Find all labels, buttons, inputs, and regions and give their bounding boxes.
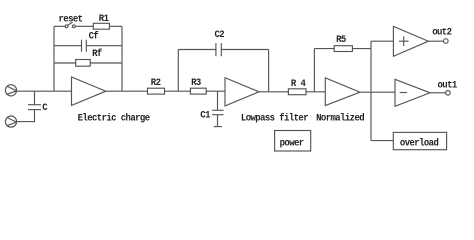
terminal out2 xyxy=(444,39,449,44)
R5 pickoff rail xyxy=(313,49,315,92)
svg-text:Electric charge: Electric charge xyxy=(78,112,151,124)
overload box xyxy=(393,132,446,149)
svg-text:R2: R2 xyxy=(151,77,161,89)
wire: left rail to Cf xyxy=(54,45,81,47)
op-amp U1 xyxy=(72,77,106,105)
op-amp U3 xyxy=(325,78,360,106)
svg-text:C1: C1 xyxy=(200,109,210,121)
resistor R1 xyxy=(93,23,109,29)
power box xyxy=(275,131,311,152)
svg-text:out1: out1 xyxy=(438,79,458,91)
wire: rail to overload box xyxy=(371,140,393,142)
resistor Rf xyxy=(76,60,91,67)
svg-text:R3: R3 xyxy=(191,77,201,89)
wire: R3 to op-amp U2 xyxy=(206,90,225,92)
wire: X2 to capacitor C xyxy=(17,110,35,122)
svg-text:reset: reset xyxy=(59,13,83,25)
svg-text:C: C xyxy=(42,101,48,113)
wire: A3 output xyxy=(428,40,443,42)
svg-text:overload: overload xyxy=(400,137,439,149)
wire: U3 output to A4 input xyxy=(360,91,395,93)
svg-text:C2: C2 xyxy=(215,29,225,41)
wire: switch to R1 xyxy=(75,25,93,27)
wire: U1 output to R2 xyxy=(106,90,148,92)
svg-text:power: power xyxy=(280,137,305,149)
svg-text:out2: out2 xyxy=(432,26,452,38)
capacitor C2 right rail xyxy=(268,50,270,92)
wire: X1 to op-amp U1 input xyxy=(17,90,72,92)
resistor R5 xyxy=(334,46,352,52)
wire: R2 to R3 xyxy=(165,90,191,92)
resistor R3 xyxy=(190,88,206,94)
svg-text:R 4: R 4 xyxy=(291,77,306,89)
svg-text:R1: R1 xyxy=(99,12,109,24)
wire: U2 output to R4 xyxy=(259,91,288,93)
wire: R5 branch left xyxy=(314,48,334,50)
capacitor C xyxy=(28,91,41,109)
feedback left rail xyxy=(53,26,55,91)
op-amp U2 xyxy=(225,78,259,106)
svg-text:Rf: Rf xyxy=(92,47,102,59)
input transducer X2 (bottom) xyxy=(5,116,16,127)
wire: R4 to op-amp U3 xyxy=(306,91,325,93)
wire: left rail to reset switch xyxy=(54,25,65,27)
capacitor C2 xyxy=(216,43,221,56)
input transducer X1 (top) xyxy=(5,85,16,96)
distribution rail xyxy=(370,41,372,140)
wire: Rf to right rail xyxy=(90,62,122,64)
svg-text:Cf: Cf xyxy=(89,30,99,42)
wire: R5 branch right xyxy=(352,48,371,50)
switch S1 (reset) xyxy=(65,22,75,27)
svg-text:R5: R5 xyxy=(336,33,346,45)
wire: A4 output xyxy=(430,92,446,94)
feedback right rail xyxy=(121,26,123,91)
buffer amp A3 (+) xyxy=(393,26,428,56)
capacitor C1 xyxy=(212,91,223,126)
wire: R1 to right rail xyxy=(109,25,122,27)
wire: C2 branch right xyxy=(221,49,268,51)
capacitor C2 left rail xyxy=(177,50,179,92)
wire: C2 branch left xyxy=(178,49,216,51)
capacitor Cf xyxy=(82,40,87,52)
buffer amp A4 (-) xyxy=(395,79,430,106)
svg-text:Normalized: Normalized xyxy=(316,112,365,124)
resistor R4 xyxy=(288,89,306,95)
wire: Cf to right rail xyxy=(87,45,123,47)
resistor R2 xyxy=(148,88,165,94)
wire: left rail to Rf xyxy=(54,62,76,64)
terminal out1 xyxy=(446,91,451,96)
wire: rail to A3 input xyxy=(371,40,393,42)
svg-text:Lowpass filter: Lowpass filter xyxy=(241,112,309,124)
